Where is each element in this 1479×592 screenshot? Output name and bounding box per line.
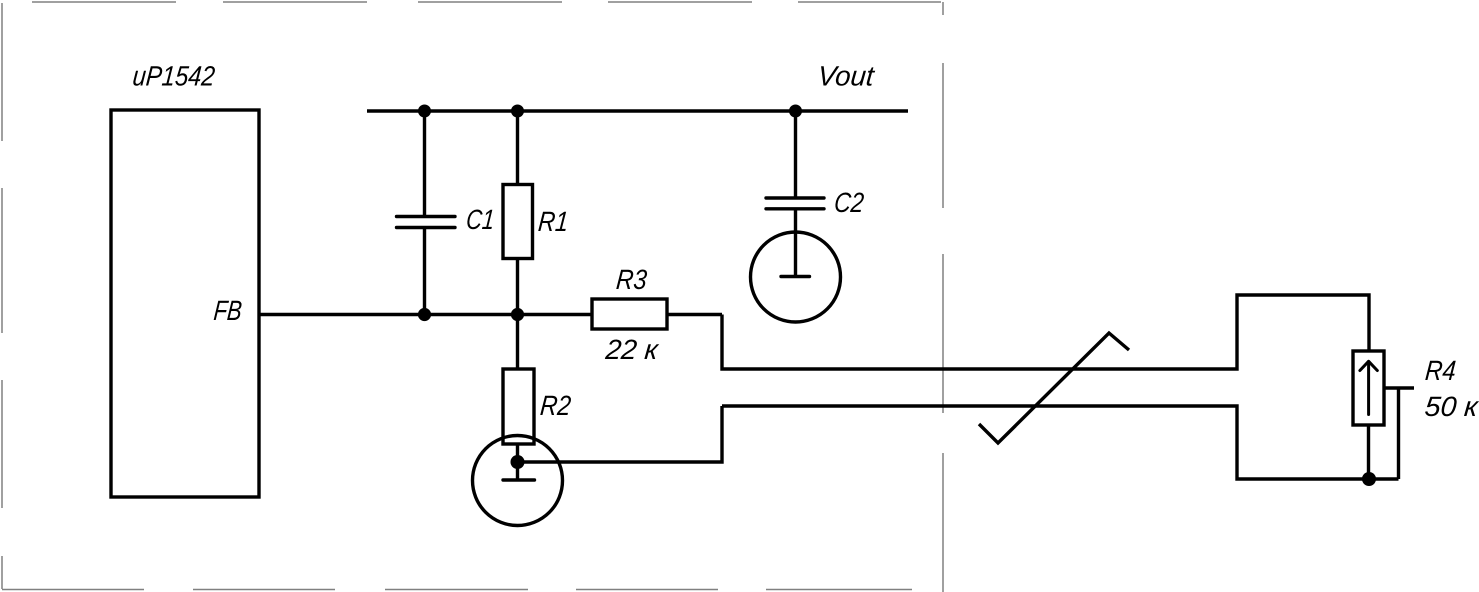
node dot FB/C1: [418, 308, 431, 321]
ground symbol at C2 bottom: [751, 232, 841, 322]
capacitor C1: [397, 111, 456, 315]
ground symbol at R2 bottom: [473, 436, 563, 526]
resistor R3: [592, 299, 722, 329]
node dot R4 bottom: [1362, 472, 1376, 486]
label R2: [539, 390, 573, 421]
label R3: [615, 264, 649, 295]
op-amp/IC U1 uP1542 body: [111, 110, 259, 497]
wire Vout bus: [367, 109, 908, 112]
svg-text:uP1542: uP1542: [131, 61, 216, 92]
label C1: [465, 204, 496, 235]
border frame (dashed, decorative): [2, 2, 943, 592]
svg-text:22 к: 22 к: [603, 334, 660, 365]
svg-text:Vout: Vout: [816, 61, 876, 92]
wire lower pair: [722, 406, 1399, 479]
value label 50 k: [1423, 391, 1479, 422]
node dot ground tap: [511, 455, 525, 469]
svg-text:FB: FB: [212, 295, 243, 326]
pin label FB: [212, 295, 243, 326]
svg-text:50 к: 50 к: [1423, 391, 1479, 422]
resistor R2: [503, 315, 534, 481]
svg-text:R3: R3: [615, 264, 649, 295]
svg-text:C2: C2: [833, 187, 866, 218]
potentiometer R4: [1353, 351, 1414, 479]
svg-text:R1: R1: [537, 206, 570, 237]
node dot FB/R1/R2: [511, 308, 524, 321]
label uP1542: [131, 61, 216, 92]
node dot Vout/C1: [418, 105, 431, 118]
label Vout: [816, 61, 876, 92]
svg-text:R4: R4: [1424, 355, 1457, 386]
value label 22 k: [603, 334, 660, 365]
wire upper pair: [722, 295, 1369, 369]
cable break symbol: [979, 333, 1129, 443]
wire FB net: [259, 313, 592, 316]
label C2: [833, 187, 866, 218]
node dot Vout/C2: [789, 105, 802, 118]
svg-text:C1: C1: [465, 204, 496, 235]
label R4: [1424, 355, 1457, 386]
resistor R1: [503, 111, 533, 315]
wire from ground node to lower pair: [518, 406, 723, 462]
node dot Vout/R1: [511, 105, 524, 118]
svg-text:R2: R2: [539, 390, 573, 421]
capacitor C2: [766, 111, 824, 276]
label R1: [537, 206, 570, 237]
